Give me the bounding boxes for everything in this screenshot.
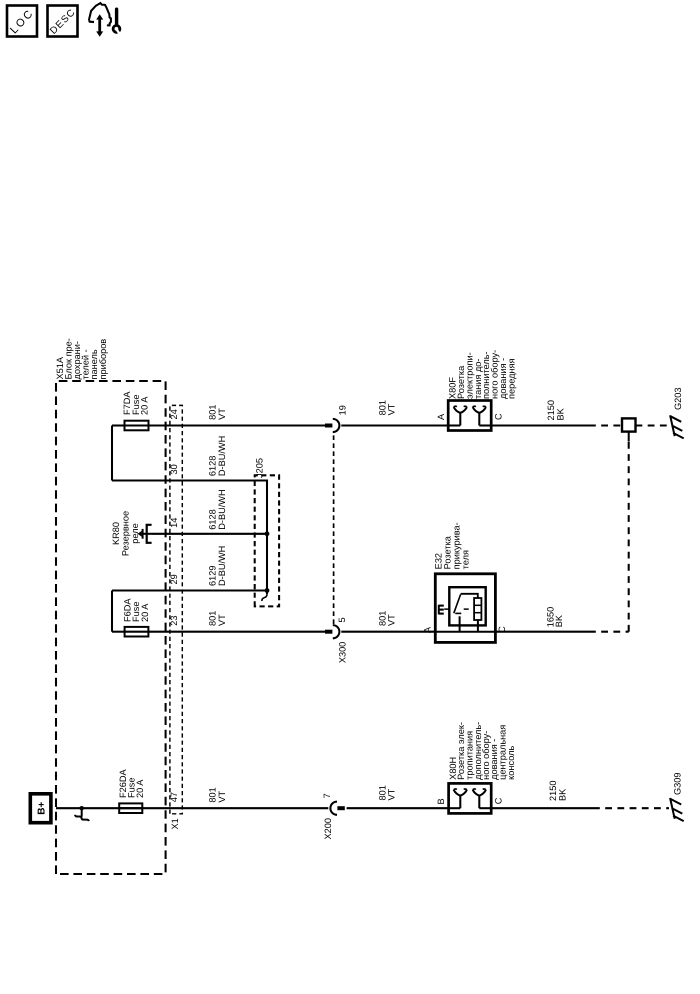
svg-text:D-BU/WH: D-BU/WH [217, 489, 227, 529]
wire: X300 to E32 [341, 631, 435, 633]
svg-text:6128: 6128 [208, 509, 218, 529]
wire: X300 to X80F [341, 424, 448, 426]
wire: F7DA through X1 pin 24 to X300 [149, 424, 326, 426]
E32 through wire [435, 631, 495, 633]
splice J205 dashed box [255, 475, 279, 606]
inline connector X300 pin 19 [325, 424, 332, 428]
E32 switch blade [454, 594, 461, 613]
svg-text:VT: VT [387, 614, 397, 626]
wire: E32 to junction block (1650 BK) [495, 631, 589, 633]
relay KR80 terminal arrow [142, 529, 144, 539]
svg-text:D-BU/WH: D-BU/WH [217, 546, 227, 586]
svg-text:801: 801 [208, 611, 218, 626]
X80F socket contact 2 [478, 413, 480, 426]
svg-text:5: 5 [337, 617, 347, 622]
wire: pin 29 feeder 6129 [112, 589, 267, 591]
rotated schematic (landscape 994x700 rotated 90deg CCW) [30, 338, 683, 874]
svg-text:6128: 6128 [208, 456, 218, 476]
wire: pin 30 feeder 6128 [112, 479, 267, 481]
svg-text:KR80: KR80 [111, 522, 121, 545]
svg-text:C: C [494, 797, 504, 804]
wire: feeder from splice up over to F7DA [111, 426, 113, 481]
svg-text:передняя: передняя [507, 358, 517, 399]
ground G309 [670, 798, 675, 819]
svg-text:14: 14 [169, 518, 179, 528]
svg-text:BK: BK [554, 614, 564, 627]
wire: X80H to G309 (2150 BK) [491, 807, 593, 809]
E32 switch feed [459, 616, 461, 631]
connector strip X1 dashed outline [170, 405, 182, 813]
svg-text:X200: X200 [323, 818, 333, 839]
icon diagnostic (panel outline) [89, 3, 111, 25]
E32 element riser [461, 594, 478, 598]
svg-text:7: 7 [322, 793, 332, 798]
relay KR80 terminal bracket [147, 525, 152, 543]
E32 element to wire [477, 620, 479, 632]
icon diagnostic (wrench) [115, 9, 118, 25]
svg-text:VT: VT [217, 408, 227, 420]
svg-text:A: A [423, 626, 433, 633]
splice J205 pigtail [262, 594, 267, 601]
junction dot relay/J205 [265, 531, 270, 536]
svg-text:47: 47 [169, 792, 179, 802]
fuse F7DA [124, 424, 150, 426]
component E32 cigarette lighter outer box [435, 574, 495, 643]
svg-text:23: 23 [169, 615, 179, 625]
ground G203 [670, 415, 675, 436]
component X80H power outlet box [449, 783, 492, 813]
wire: X200 to X80H [347, 807, 449, 809]
svg-text:BK: BK [557, 788, 567, 801]
connector X300 dashed body line [333, 432, 335, 624]
wire: relay through X1 pin 14 to splice J205 [153, 533, 268, 535]
svg-text:C: C [494, 413, 504, 420]
svg-text:приборов: приборов [98, 339, 108, 380]
svg-text:30: 30 [169, 464, 179, 474]
fuse F26DA [118, 807, 143, 809]
svg-text:J205: J205 [255, 458, 265, 478]
icon button LOC [7, 6, 37, 37]
junction dot 6129/J205 [265, 588, 270, 593]
svg-text:консоль: консоль [506, 746, 516, 780]
svg-text:X1: X1 [170, 818, 180, 829]
svg-text:теля: теля [461, 550, 471, 569]
wire: X80F internal stubs [448, 424, 460, 426]
power distribution tap symbol [81, 808, 83, 817]
svg-text:24: 24 [169, 409, 179, 419]
wire: F6DA through X1 pin 23 to X300 [148, 631, 325, 633]
wire: feeder from splice up over to F6DA [111, 591, 113, 632]
svg-text:BK: BK [555, 407, 565, 420]
svg-text:A: A [436, 413, 446, 420]
E32 mechanical dashed link [444, 608, 469, 610]
svg-text:19: 19 [337, 405, 347, 415]
X80H socket contact 1 [459, 796, 461, 809]
E32 heater element bar [474, 598, 481, 620]
svg-text:G203: G203 [673, 388, 683, 410]
svg-text:D-BU/WH: D-BU/WH [217, 436, 227, 476]
splice J205 bus line [264, 481, 267, 595]
inline connector X300 pin 5 [325, 630, 332, 634]
svg-text:VT: VT [217, 614, 227, 626]
icon button DESC [48, 6, 78, 37]
fuse F6DA [124, 631, 150, 633]
svg-text:6129: 6129 [208, 566, 218, 586]
wire: B+ into fuse block down to X200 [56, 807, 328, 809]
battery feed B+ [30, 794, 51, 823]
svg-text:801: 801 [208, 405, 218, 420]
wire: X80H internal stubs [449, 807, 461, 809]
icon diagnostic (double arrow) [98, 19, 101, 33]
svg-text:VT: VT [387, 788, 397, 800]
svg-text:реле: реле [130, 523, 140, 543]
fuse block X51A dashed outline [56, 381, 166, 874]
portrait icon bar [7, 3, 121, 37]
E32 inner box [449, 587, 485, 625]
wire: X80F to splice square (2150 BK) [491, 424, 589, 426]
svg-text:X300: X300 [337, 642, 347, 663]
inline connector X200 pin 7 [337, 806, 344, 810]
svg-text:VT: VT [217, 790, 227, 802]
svg-text:VT: VT [387, 403, 397, 415]
svg-text:29: 29 [169, 574, 179, 584]
svg-text:Резервное: Резервное [121, 511, 131, 556]
svg-text:G309: G309 [672, 773, 682, 795]
svg-text:20 A: 20 A [140, 603, 150, 622]
E32 eject knob (E mark) [438, 605, 440, 615]
X80H socket contact 2 [478, 796, 480, 809]
splice junction dot on B+ feed [80, 806, 84, 810]
svg-text:B: B [436, 798, 446, 804]
X80F socket contact 1 [459, 413, 461, 426]
svg-text:20 A: 20 A [140, 396, 150, 415]
svg-text:B+: B+ [37, 802, 48, 815]
svg-text:801: 801 [208, 787, 218, 802]
ground junction block [622, 418, 636, 431]
svg-text:20 A: 20 A [135, 779, 145, 798]
component X80F power outlet box [448, 401, 491, 431]
wire: junction block to G203 [636, 424, 670, 426]
